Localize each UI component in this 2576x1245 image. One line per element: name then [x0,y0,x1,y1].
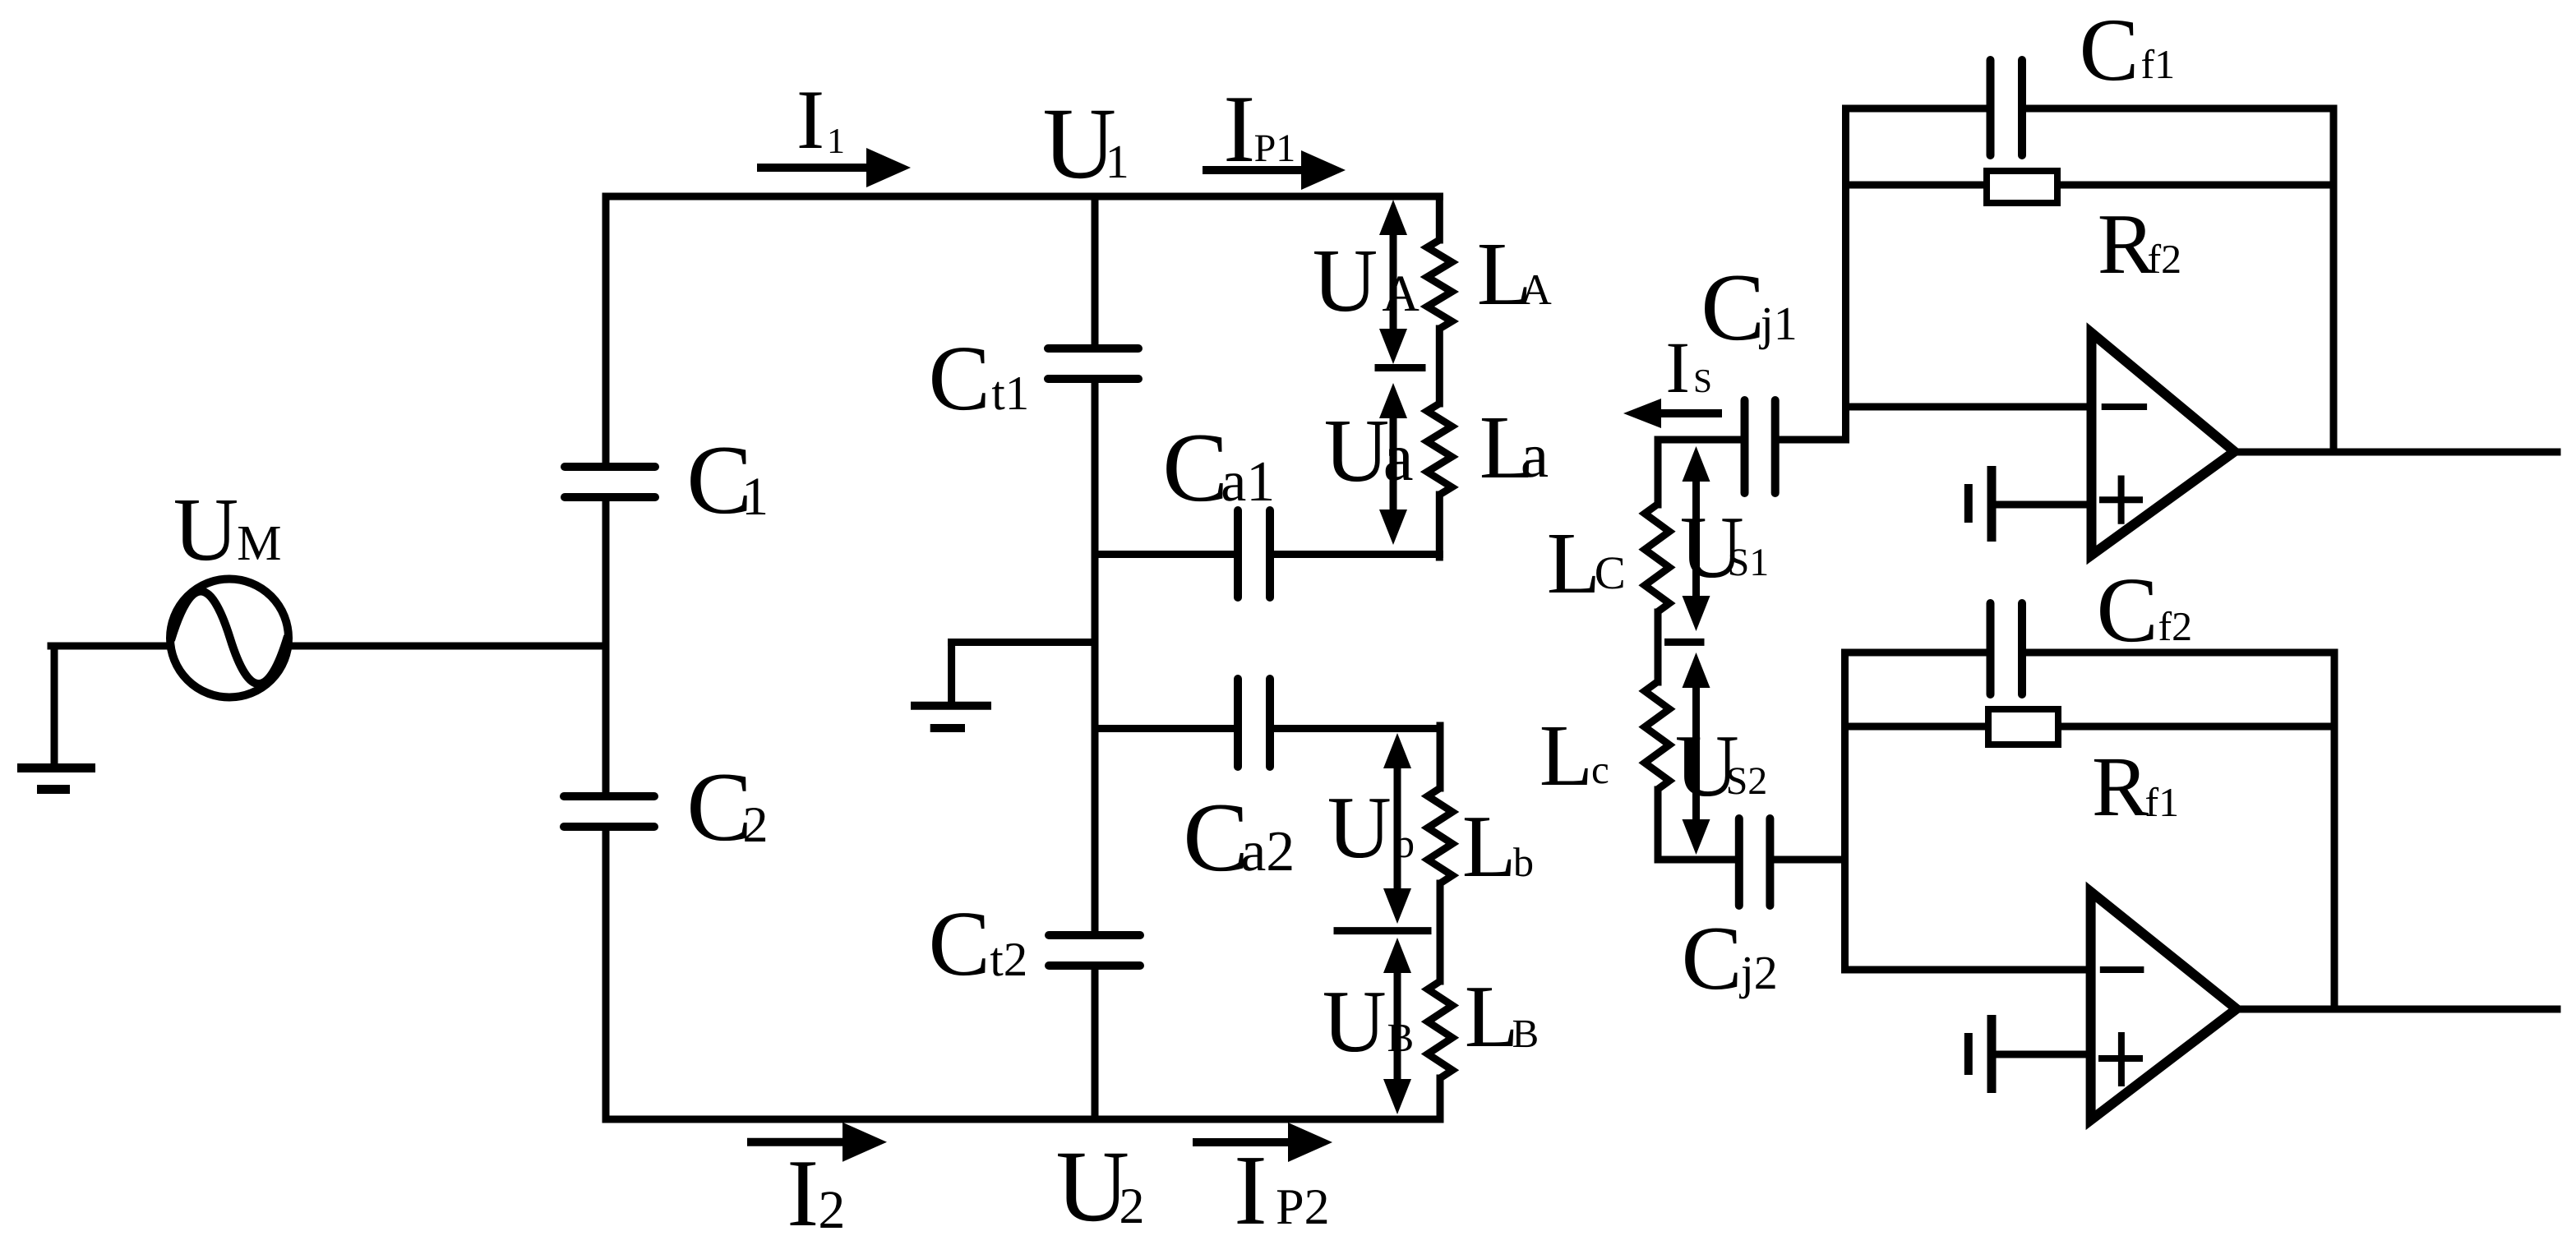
svg-text:A: A [1382,265,1420,322]
svg-text:a2: a2 [1240,820,1295,883]
svg-text:t2: t2 [990,932,1027,986]
svg-text:I: I [796,73,824,167]
svg-text:1: 1 [741,467,769,527]
svg-text:a: a [1521,420,1549,491]
svg-text:b: b [1394,820,1415,866]
svg-text:t1: t1 [991,366,1029,420]
svg-text:b: b [1513,839,1534,885]
svg-text:P1: P1 [1254,127,1296,170]
svg-text:j2: j2 [1739,946,1778,999]
svg-text:P2: P2 [1276,1179,1329,1235]
svg-text:f1: f1 [2141,41,2176,87]
svg-text:L: L [1547,515,1600,612]
svg-text:1: 1 [1106,135,1129,188]
svg-text:I: I [787,1141,819,1241]
svg-text:2: 2 [818,1180,845,1240]
svg-text:L: L [1540,708,1593,805]
svg-text:1: 1 [827,121,845,161]
svg-text:f2: f2 [2158,603,2193,649]
svg-text:R: R [2098,196,2155,292]
svg-text:C: C [1701,255,1765,361]
svg-text:a1: a1 [1221,450,1275,514]
svg-text:U: U [1323,973,1387,1071]
svg-text:f2: f2 [2148,236,2182,282]
svg-text:A: A [1521,266,1552,314]
svg-text:L: L [1465,968,1519,1066]
svg-text:f1: f1 [2145,779,2180,825]
svg-text:I: I [1223,76,1255,182]
svg-text:C: C [1162,413,1228,522]
svg-text:C: C [2097,559,2158,662]
svg-text:I: I [1665,328,1690,408]
svg-text:S1: S1 [1728,541,1770,584]
svg-text:U: U [1313,230,1378,330]
svg-text:S2: S2 [1726,759,1768,803]
svg-text:L: L [1462,798,1517,896]
svg-text:2: 2 [743,797,769,853]
svg-text:C: C [929,892,990,995]
svg-text:c: c [1591,747,1609,792]
svg-text:S: S [1693,362,1712,399]
svg-text:U: U [1327,779,1392,877]
svg-text:M: M [237,516,281,571]
svg-text:C: C [1595,547,1626,599]
svg-text:I: I [1234,1135,1267,1241]
svg-text:B: B [1512,1011,1540,1056]
svg-text:C: C [1682,908,1743,1009]
svg-text:a: a [1383,419,1414,495]
svg-text:C: C [2080,0,2140,99]
svg-text:j1: j1 [1759,297,1798,350]
svg-text:C: C [929,327,990,430]
svg-text:2: 2 [1119,1178,1145,1234]
svg-text:R: R [2092,740,2149,834]
svg-text:U: U [173,479,238,579]
svg-text:B: B [1387,1015,1415,1060]
svg-text:U: U [1324,400,1389,500]
svg-text:C: C [1183,782,1249,892]
